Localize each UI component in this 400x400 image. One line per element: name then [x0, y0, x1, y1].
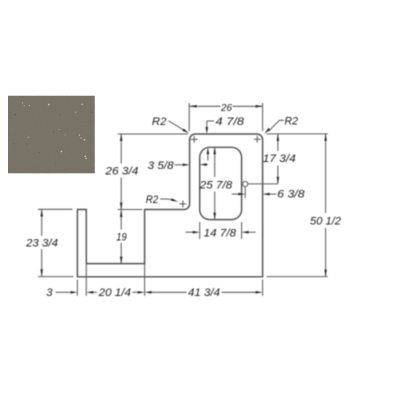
sink cutout — [200, 147, 242, 219]
svg-text:23 3/4: 23 3/4 — [25, 238, 58, 250]
dim 20 1/4 — [86, 291, 93, 294]
svg-text:6 3/8: 6 3/8 — [277, 189, 305, 201]
dim 26 extension lines — [188, 103, 190, 131]
dim 23 3/4 extension lines — [38, 208, 73, 210]
dim 6 3/8 — [232, 193, 239, 195]
dim 17 3/4 — [277, 134, 279, 151]
swatch speckles — [13, 102, 92, 164]
svg-text:R2: R2 — [285, 116, 299, 128]
dim 50 1/2 extension — [267, 276, 328, 278]
leader R2 top-right — [269, 120, 285, 131]
svg-text:41 3/4: 41 3/4 — [188, 287, 220, 299]
center mark top-right R2 — [254, 136, 261, 143]
dim 3 — [56, 291, 71, 293]
leader R2 top-left — [169, 121, 185, 130]
dim 17 3/4 extension — [267, 133, 328, 135]
svg-text:19: 19 — [116, 231, 127, 243]
dim 6 3/8 extension — [244, 187, 246, 198]
svg-text:R2: R2 — [152, 116, 167, 128]
svg-text:17 3/4: 17 3/4 — [263, 153, 296, 165]
countertop outline — [77, 134, 262, 277]
dim 41 3/4 — [145, 291, 152, 294]
faucet hole — [243, 181, 248, 186]
dim 26 — [190, 105, 221, 107]
leader R2 fillet — [160, 199, 175, 201]
dim 4 7/8 — [206, 121, 208, 129]
dim 19 — [120, 210, 122, 230]
center mark top-left R2 — [191, 136, 198, 143]
dim 3 5/8 — [175, 164, 183, 166]
center mark step fillet R2 — [180, 201, 187, 208]
dim 23 3/4 — [41, 210, 43, 237]
svg-text:26: 26 — [220, 103, 232, 114]
dim 50 1/2 — [325, 134, 327, 213]
svg-text:20 1/4: 20 1/4 — [98, 287, 131, 299]
dim 14 7/8 extension lines — [199, 222, 201, 239]
bottom extension lines — [76, 280, 78, 296]
dim 26 3/4 — [120, 134, 122, 164]
dim 14 7/8 — [186, 231, 193, 233]
svg-text:4 7/8: 4 7/8 — [216, 116, 245, 128]
svg-text:3 5/8: 3 5/8 — [148, 160, 175, 172]
svg-text:50 1/2: 50 1/2 — [310, 216, 342, 228]
dim 25 7/8 — [214, 147, 216, 177]
svg-text:26 3/4: 26 3/4 — [104, 166, 138, 178]
svg-text:3: 3 — [46, 287, 53, 299]
svg-text:R2: R2 — [146, 194, 159, 206]
dim 26 3/4 extension lines — [118, 133, 188, 135]
svg-text:25 7/8: 25 7/8 — [199, 179, 233, 191]
svg-text:14 7/8: 14 7/8 — [204, 227, 237, 239]
